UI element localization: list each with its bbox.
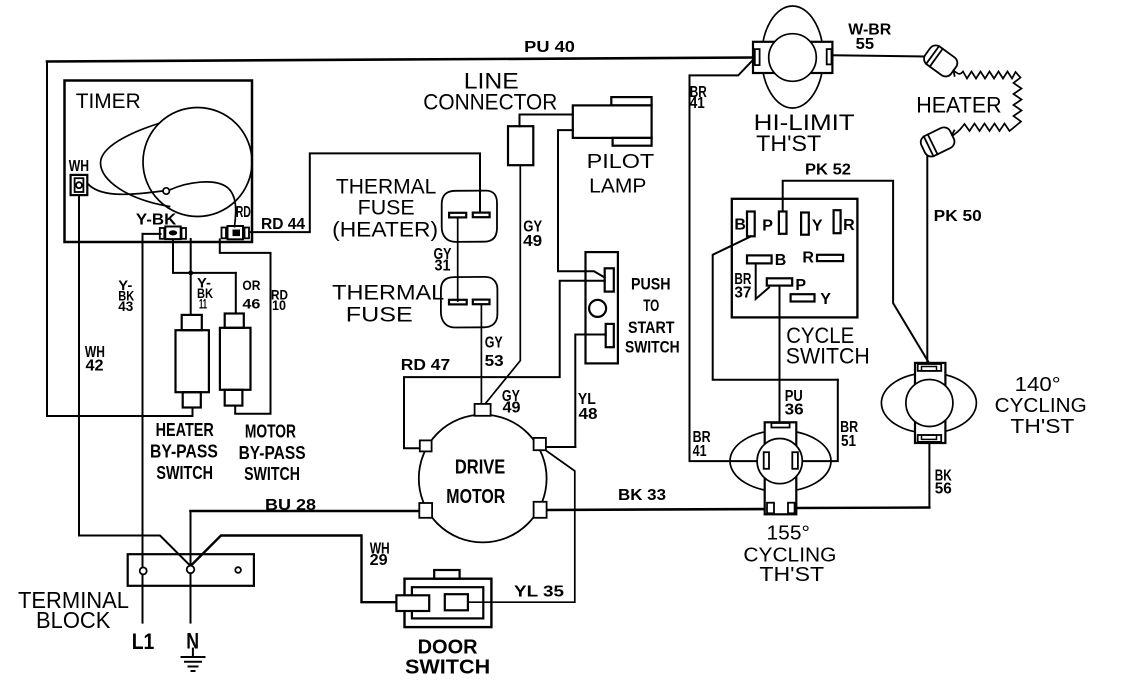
svg-text:43: 43 (118, 298, 133, 314)
svg-text:Y: Y (820, 291, 831, 308)
terminal block screw L1 (140, 567, 147, 574)
thermal fuse contact bars (449, 300, 467, 305)
heater element zigzag (954, 71, 1022, 136)
svg-text:TIMER: TIMER (76, 90, 141, 113)
wire Y-BK 11 to heater by-pass switch (190, 273, 192, 315)
svg-text:TH'ST: TH'ST (756, 131, 821, 156)
svg-text:TO: TO (643, 296, 659, 315)
motor by-pass switch bottom tab (225, 390, 243, 406)
svg-text:CYCLING: CYCLING (995, 395, 1087, 417)
svg-text:49: 49 (523, 233, 542, 250)
cycle switch pin P (top row) (779, 212, 787, 234)
wire BK 33 motor to 155 cycling thermostat (547, 509, 766, 510)
wire left outer vertical (L1 riser) (46, 62, 48, 417)
wire PU 40 (top supply line L1) (47, 58, 753, 62)
door switch inner frame (412, 587, 483, 618)
timer WH contact curve (88, 184, 163, 195)
svg-text:RD: RD (236, 204, 251, 221)
wire PU 36 cycle switch P bar to 155 thermostat (779, 286, 781, 423)
heater by-pass switch body (176, 330, 209, 392)
155 cycling thermostat right pin (792, 452, 798, 469)
svg-text:THERMAL: THERMAL (336, 175, 437, 198)
svg-text:PUSH: PUSH (631, 275, 671, 294)
svg-text:THERMAL: THERMAL (332, 282, 444, 305)
140 cycling thermostat bottom tab (918, 435, 942, 442)
door switch contact (445, 594, 468, 610)
svg-text:SWITCH: SWITCH (156, 463, 213, 483)
wire BK 33 right segment to BK 56 (796, 506, 930, 509)
140 cycling thermostat petals (881, 373, 976, 433)
140 cycling thermostat top tab inner bar (922, 367, 937, 371)
timer RD contact curve (170, 182, 236, 227)
cycle switch box (732, 199, 858, 318)
wire GY 53 thermal fuse to drive motor (480, 305, 482, 408)
heater top plug connector (921, 43, 963, 82)
wire RD 10 timer RD to motor by-pass switch (220, 240, 271, 414)
svg-text:11: 11 (199, 296, 207, 312)
push to start switch button circle (589, 300, 606, 317)
pilot lamp body (573, 105, 652, 137)
cycle switch pin Y (top row) (801, 213, 809, 235)
svg-text:DRIVE: DRIVE (455, 457, 505, 479)
thermal fuse (heater) contact bars (449, 213, 466, 218)
svg-text:DOOR: DOOR (418, 636, 479, 658)
svg-text:55: 55 (856, 36, 875, 53)
svg-text:155°: 155° (767, 523, 810, 545)
svg-text:51: 51 (841, 433, 856, 450)
timer cam big circle (143, 108, 252, 217)
svg-text:29: 29 (370, 552, 388, 569)
connector RD (timer) (222, 226, 250, 239)
motor by-pass switch top tab (225, 314, 244, 328)
wire GY 31 between thermal fuses (457, 218, 459, 302)
wire cycle switch B bar to P bar link (756, 263, 769, 299)
connector Y-BK (timer) (160, 227, 186, 240)
140 cycling thermostat top tab (918, 364, 942, 371)
heater bottom plug connector (918, 123, 960, 159)
svg-text:36: 36 (785, 402, 804, 419)
svg-text:HEATER: HEATER (916, 93, 1002, 118)
svg-text:46: 46 (242, 296, 260, 312)
door switch top tab (434, 570, 459, 579)
heater by-pass switch top tab (182, 315, 202, 330)
cycle switch contact bar R (middle row) (817, 255, 843, 261)
svg-text:R: R (843, 217, 855, 234)
junction dot Y-BK net (188, 271, 193, 276)
push to start switch body (586, 252, 618, 363)
wire YL 48 push-to-start to drive motor (575, 335, 605, 448)
140 cycling thermostat disc (906, 380, 953, 427)
svg-text:31: 31 (435, 258, 451, 275)
timer cam lobe (101, 124, 170, 207)
svg-text:TH'ST: TH'ST (1010, 416, 1074, 438)
wire bottom horizontal to heater by-pass switch (47, 408, 193, 416)
svg-text:SWITCH: SWITCH (786, 344, 870, 369)
pilot lamp top tab (611, 97, 651, 105)
svg-text:FUSE: FUSE (346, 304, 413, 327)
wire BU 28 from N corner to drive motor (191, 510, 420, 513)
svg-text:BY-PASS: BY-PASS (239, 443, 306, 463)
svg-text:P: P (762, 218, 773, 235)
wire PK 52 cycle switch to 140 thermostat (783, 181, 929, 362)
svg-text:BY-PASS: BY-PASS (150, 442, 218, 462)
hi-limit thermostat disc (769, 34, 817, 82)
wire GY 49 line connector to drive motor (482, 165, 520, 408)
push to start switch lower contact (606, 324, 614, 347)
drive motor left lower terminal (419, 503, 432, 518)
svg-text:10: 10 (272, 297, 286, 313)
svg-text:MOTOR: MOTOR (245, 422, 296, 442)
155 cycling thermostat left pin (764, 452, 769, 469)
svg-text:BK 33: BK 33 (618, 487, 666, 504)
terminal block body (128, 554, 254, 586)
wire Y-BK connector left jog (143, 233, 161, 235)
svg-text:37: 37 (734, 284, 751, 301)
svg-text:41: 41 (693, 443, 707, 460)
svg-text:START: START (628, 318, 675, 337)
timer cam follower small circle (163, 188, 169, 194)
wire pilot lamp to push-to-start switch (558, 130, 605, 277)
wire PK 50 heater to 140 thermostat (926, 152, 928, 364)
pilot lamp bottom tab (613, 138, 652, 146)
svg-text:N: N (186, 629, 199, 654)
svg-text:YL 35: YL 35 (514, 584, 564, 601)
wire BR 51 down to 155 thermostat right pin (798, 380, 838, 461)
wire WH 42 from timer WH to terminal block N (79, 195, 191, 566)
hi-limit thermostat U1 petals (762, 6, 824, 108)
wire BR 41 hi-limit to 155 cycling thermostat (690, 59, 765, 461)
cycle switch pin B (top row) (747, 212, 755, 237)
svg-text:PK 52: PK 52 (805, 161, 851, 178)
svg-text:MOTOR: MOTOR (446, 486, 505, 508)
wire motor right-upper tab stub (546, 446, 575, 448)
drive motor left upper terminal (420, 440, 432, 451)
155 cycling thermostat disc (757, 439, 802, 484)
wire Y-BK 43 / L1 vertical to terminal block (142, 234, 144, 623)
svg-text:WH: WH (69, 158, 89, 175)
svg-text:FUSE: FUSE (358, 197, 415, 220)
svg-text:B: B (734, 216, 746, 233)
155 cycling thermostat bottom tab left (767, 503, 774, 514)
svg-text:OR: OR (242, 277, 260, 293)
svg-text:Y: Y (812, 218, 823, 235)
door switch outer body (405, 579, 492, 627)
drive motor right upper terminal (534, 438, 546, 450)
svg-text:B: B (775, 252, 787, 269)
wire Y-BK center pin to junction (173, 240, 236, 273)
svg-text:BLOCK: BLOCK (36, 607, 111, 633)
wire RD 44 timer RD to thermal fuse (heater) (250, 153, 480, 232)
wire OR 46 to motor by-pass switch (235, 273, 237, 314)
svg-text:P: P (795, 277, 806, 294)
svg-text:R: R (802, 249, 814, 266)
svg-text:SWITCH: SWITCH (405, 657, 490, 679)
thermal fuse (heater) body (442, 191, 497, 242)
svg-text:140°: 140° (1015, 374, 1061, 396)
svg-text:PK 50: PK 50 (934, 208, 982, 225)
hi-limit thermostat body (753, 42, 832, 73)
cycle switch pin R (top row) (834, 210, 841, 233)
cycle switch contact bar Y (fourth row) (791, 294, 815, 301)
svg-text:RD 44: RD 44 (261, 216, 305, 233)
svg-text:(HEATER): (HEATER) (332, 219, 438, 242)
svg-text:SWITCH: SWITCH (244, 464, 300, 484)
svg-text:HEATER: HEATER (156, 420, 214, 440)
wire W-BR 55 hi-limit to heater (832, 55, 926, 56)
wire BK 56 to 140 cycling thermostat (928, 442, 930, 508)
svg-text:53: 53 (485, 353, 504, 370)
svg-text:PILOT: PILOT (587, 151, 655, 173)
svg-text:PU 40: PU 40 (524, 39, 575, 56)
155 cycling thermostat body (765, 422, 797, 514)
svg-text:SWITCH: SWITCH (625, 337, 680, 356)
svg-text:41: 41 (690, 95, 705, 112)
svg-text:49: 49 (503, 400, 521, 417)
wire line connector to pilot lamp (520, 115, 573, 127)
wire YL 35 motor to door switch (468, 451, 575, 603)
ground symbol below N (182, 649, 205, 671)
svg-text:48: 48 (579, 406, 598, 423)
svg-text:RD 47: RD 47 (401, 357, 451, 374)
wire RD 47 motor to push-to-start switch (404, 281, 605, 449)
svg-text:BU 28: BU 28 (265, 497, 316, 514)
door switch left plug (396, 595, 429, 611)
push to start switch upper contact (605, 268, 614, 291)
svg-text:TH'ST: TH'ST (759, 564, 824, 586)
terminal block screw spare (235, 567, 241, 573)
svg-text:56: 56 (935, 481, 952, 498)
thermal fuse body (441, 277, 498, 328)
drive motor M1 circle (419, 415, 547, 543)
wire BR 37 cycle switch B tab down (713, 236, 838, 379)
line connector body (508, 126, 533, 165)
svg-text:L1: L1 (132, 629, 155, 654)
140 cycling thermostat body (915, 363, 945, 443)
svg-text:42: 42 (86, 358, 104, 375)
terminal block screw N (187, 566, 195, 574)
hi-limit thermostat right pin (827, 49, 832, 64)
svg-text:CONNECTOR: CONNECTOR (423, 89, 557, 114)
155 cycling thermostat top tab (771, 423, 789, 428)
cycle switch contact bar P (third row) (767, 278, 792, 285)
motor by-pass switch body (220, 328, 251, 390)
heater by-pass switch bottom tab (183, 392, 201, 407)
wire WH 29 V-arm from N terminal to door switch (191, 536, 397, 603)
wire N terminal vertical (190, 511, 192, 623)
140 cycling thermostat bottom tab inner bar (922, 435, 937, 439)
drive motor top terminal (475, 404, 491, 416)
svg-text:LAMP: LAMP (589, 176, 646, 198)
drive motor right lower terminal (534, 502, 547, 518)
hi-limit thermostat left pin (755, 49, 760, 65)
svg-text:Y-BK: Y-BK (136, 212, 177, 229)
cycle switch contact bar B (middle row) (747, 255, 772, 263)
svg-text:GY: GY (485, 335, 503, 352)
connector WH (timer) (71, 175, 88, 195)
timer TIMER box (65, 81, 253, 243)
wire Y-BK right pin down (190, 239, 192, 273)
155 cycling thermostat bottom tab right (788, 503, 795, 514)
155 cycling thermostat petals (730, 431, 831, 492)
